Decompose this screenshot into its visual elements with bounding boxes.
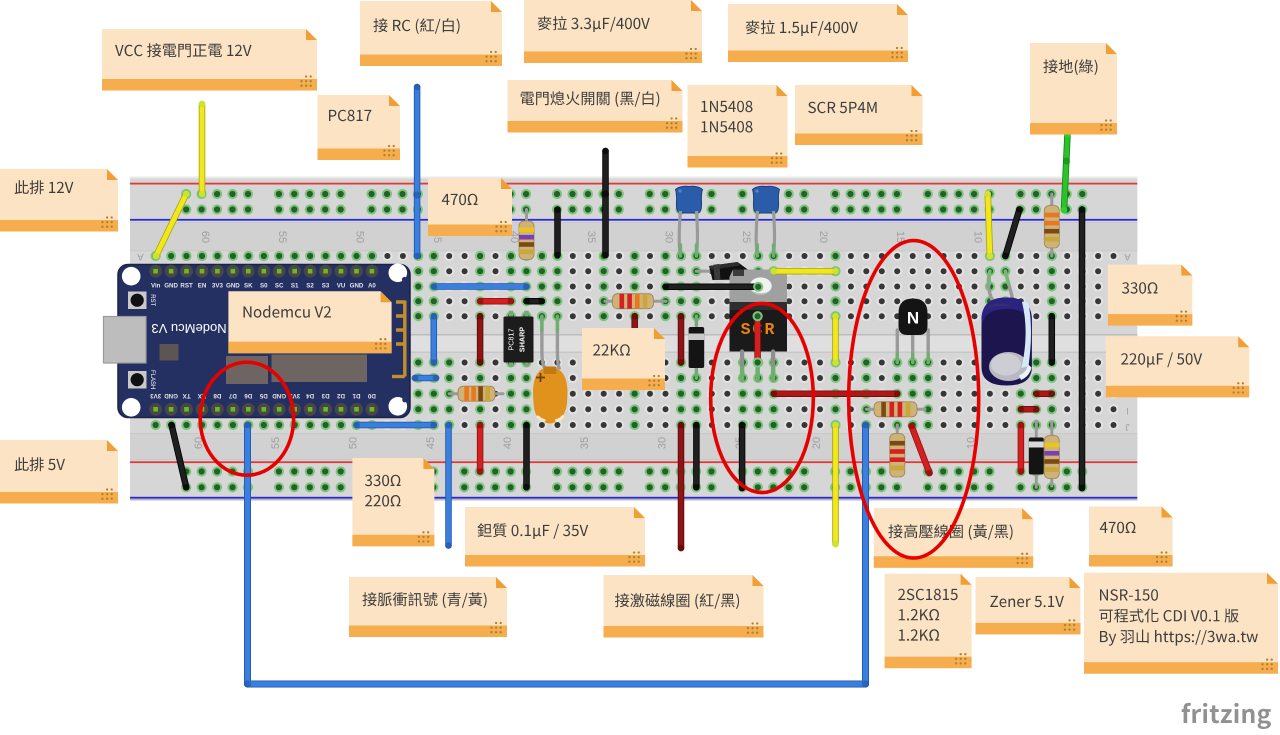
note: Nodemcu V2 [228,291,391,353]
svg-text:D7: D7 [228,392,236,399]
svg-text:45: 45 [425,437,437,449]
annotation ellipse around D6 pin [200,362,293,475]
fritzing logo [1182,703,1271,729]
svg-text:SK: SK [244,283,253,290]
wire W2 yellow rail to row A [153,191,190,260]
svg-text:D8: D8 [213,392,221,399]
svg-text:40: 40 [502,437,514,449]
resistor R5 330Ω top right [1044,194,1059,256]
svg-text:S3: S3 [322,283,330,290]
svg-text:D1: D1 [352,392,360,399]
note: 接 RC (紅/白) [360,1,502,66]
wire W17 red jumper E-F [678,313,685,366]
wire W32 red exciter coil lead [678,422,685,552]
resistor R4 1.2KΩ vertical [890,425,905,477]
wire W25 red row I jumper [1018,406,1040,413]
svg-text:SHARP: SHARP [518,327,527,352]
wire W33 black row J to rail [693,422,700,491]
svg-text:35: 35 [585,231,597,243]
note: 電門熄火開關 (黑/白) [508,80,683,133]
breadboard column numbers [137,231,1131,449]
svg-text:D5: D5 [259,392,267,399]
svg-text:VU: VU [337,283,346,290]
note: 接地(綠) [1030,43,1117,135]
svg-text:PC817: PC817 [507,329,516,351]
wire W6 green ground line [1061,131,1071,214]
wire W24 red row H jumper [1033,390,1055,397]
diode D3 zener 5.1V [1029,421,1044,487]
svg-text:50: 50 [354,231,366,243]
svg-text:20: 20 [817,231,829,243]
note: 接脈衝訊號 (青/黃) [349,577,507,637]
svg-text:30: 30 [663,231,675,243]
capacitor C3 mylar 1.5µF [753,186,780,256]
wire W29 blue row J jumper [353,422,437,429]
annotation ellipse around transistor [849,241,979,558]
svg-text:D3: D3 [321,392,329,399]
transistor Q2 2SC1815 [897,299,928,363]
svg-text:3V3: 3V3 [212,283,224,290]
wire W36 red diagonal to rail [908,423,933,477]
wire W5 black rail jumper [554,206,561,258]
wire W9 black rail to row A [1002,206,1023,259]
svg-text:A: A [137,251,144,262]
wire W15 red jumper E-F [477,313,484,366]
note: 22KΩ [582,328,665,390]
wire W31 black row J to rail [523,422,530,491]
breadboard [130,177,1137,501]
note: NSR-150 CDI [1084,573,1278,674]
svg-text:TX: TX [182,392,191,399]
svg-text:25: 25 [740,231,752,243]
capacitor C1 tantalum 0.1µF [533,316,568,423]
svg-text:D4: D4 [306,392,314,399]
note: 2SC1815 1.2KΩ [885,574,972,669]
diode D2 1N5408 vertical [689,316,705,378]
svg-text:GND: GND [164,283,178,290]
svg-text:D0: D0 [367,392,375,399]
svg-text:GND: GND [272,392,286,399]
svg-text:S1: S1 [291,283,299,290]
svg-text:J: J [1125,422,1130,432]
wire W19 yellow jumper E-F [832,313,839,366]
wire W12 black row D jumper [523,298,545,305]
wire W37 red row J to rail [1018,422,1025,475]
resistor R1 470Ω [519,210,534,260]
wire W14 yellow row B jumper [770,268,838,275]
svg-text:GND: GND [164,392,178,399]
wire W10 blue row C jumper [431,283,530,290]
svg-text:D6: D6 [244,392,252,399]
wire W7 black long rail-to-rail [1079,206,1086,491]
note: 220µF / 50V [1106,336,1249,397]
note: 鉭質 0.1µF / 35V [465,507,645,567]
wire W21 blue jumper E-F [431,313,438,366]
note: 470Ω [428,178,512,236]
svg-text:S2: S2 [306,283,314,290]
svg-text:GND: GND [226,283,240,290]
svg-text:20: 20 [811,437,823,449]
svg-text:55: 55 [276,231,288,243]
wire W30 red row J to rail [477,422,484,475]
note: 330Ω 220Ω [352,458,434,546]
wire W35 yellow HV coil lead [832,422,839,548]
wire W11 red row D jumper [477,298,514,305]
wire W22 blue row G jumper [412,375,440,382]
note: 470Ω bottom [1089,507,1173,567]
breadboard holes [151,189,1119,493]
optocoupler U2 PC817 [504,311,534,367]
capacitor C4 electrolytic 220µF [982,271,1032,385]
svg-text:30: 30 [657,437,669,449]
svg-text:NodeMcu V3: NodeMcu V3 [151,321,226,336]
diode D1 1N5408 [696,262,748,280]
wire W18 red jumper E-F over SCR [754,313,761,366]
note: 1N5408 x2 [688,85,788,168]
svg-text:Vin: Vin [151,283,161,290]
wire W16 red jumper E-F [631,313,638,366]
svg-text:35: 35 [579,437,591,449]
svg-text:60: 60 [199,231,211,243]
annotation ellipse around SCR [711,303,814,492]
wire W23 red row H bus [770,390,900,397]
svg-text:A0: A0 [368,283,376,290]
wire W20 black jumper E-F [1049,313,1056,366]
wire W27 blue loop to NodeMCU D6 [244,422,869,688]
note: 此排 12V [0,169,118,232]
wire W26 black row J to 5V rail [168,422,189,491]
svg-text:D2: D2 [336,392,344,399]
wire W34 black row J to rail [739,422,746,492]
note: 麥拉 1.5µF/400V [728,4,908,62]
resistor R2 330Ω row H [449,386,503,401]
note: Zener 5.1V [976,577,1081,634]
wire W8 yellow rail to row A [985,191,994,260]
note: 麥拉 3.3µF/400V [524,0,702,63]
wire W1 yellow 12V feed [199,101,206,198]
svg-text:55: 55 [270,437,282,449]
resistor R6 470Ω bottom right [1044,423,1059,486]
note: SCR 5P4M [795,85,923,145]
svg-text:N: N [907,309,919,328]
svg-text:EN: EN [198,283,207,290]
note: 330Ω [1108,265,1192,326]
resistor R3 1.2KΩ row I [866,402,925,417]
note: 此排 5V [0,440,118,504]
note: 接激磁線圈 (紅/黑) [604,575,764,638]
NodeMCU V3 board U1 [104,264,411,418]
svg-text:RST: RST [180,283,193,290]
svg-text:S0: S0 [260,283,268,290]
svg-text:3V3: 3V3 [150,392,162,399]
wire W4 black kill-switch line [602,148,609,259]
resistor R7 22KΩ row D [605,294,666,309]
svg-text:A: A [1124,251,1131,262]
svg-text:10: 10 [972,231,984,243]
svg-text:RST: RST [149,294,155,306]
svg-text:I: I [1126,406,1129,416]
svg-text:FLASH: FLASH [149,370,155,389]
wire W28 blue pulse signal [445,422,452,549]
wire W13 black row C jumper [662,284,761,291]
capacitor C2 mylar 3.3µF [676,186,703,256]
note: VCC 接電門正電 12V [102,29,317,91]
SCR Q1 5P4M [730,270,788,381]
svg-text:GND: GND [350,283,364,290]
wire W3 blue RC line [414,84,421,260]
note: PC817 [318,95,401,160]
note: 接高壓線圈 (黃/黑) [874,508,1033,568]
svg-text:50: 50 [348,437,360,449]
svg-text:SC: SC [275,283,284,290]
